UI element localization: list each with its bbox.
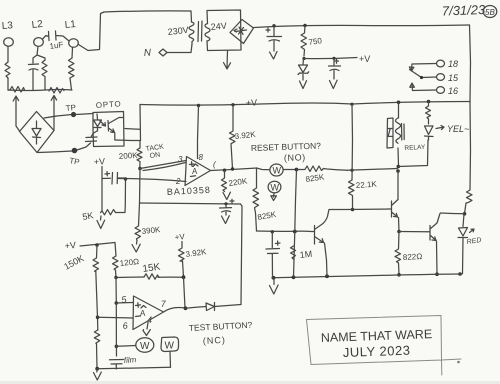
wire Q1 emitter down <box>398 218 401 232</box>
test point TP1 <box>71 112 76 117</box>
test terminal W2 <box>161 337 179 352</box>
LED RED <box>458 214 468 274</box>
U1 caret <box>193 164 198 167</box>
svg-text:6: 6 <box>122 321 128 331</box>
junction rail ledyel <box>427 100 431 104</box>
switch contact 18 <box>437 60 445 67</box>
junction cap C2 <box>332 57 335 60</box>
svg-text:200K: 200K <box>119 151 139 161</box>
wire opto emitter out <box>115 139 140 142</box>
svg-text:7/31/23: 7/31/23 <box>442 2 487 19</box>
svg-text:RELAY: RELAY <box>404 144 426 152</box>
wire U1 output <box>211 168 257 171</box>
wire main rail y25 <box>254 25 470 28</box>
U2 plus <box>136 303 141 308</box>
wire W1 <box>116 345 135 348</box>
plus C1 <box>266 28 270 32</box>
U2 caret <box>141 306 146 309</box>
svg-text:W: W <box>165 341 175 352</box>
junction relay bottom a <box>397 165 401 169</box>
junction 3.92K bottom <box>231 167 234 170</box>
arrow YEL <box>436 126 444 130</box>
svg-text:5B: 5B <box>485 8 495 17</box>
wire Wa node down <box>294 170 297 278</box>
wire pin6 <box>98 316 133 319</box>
wire Q3 emitter down <box>325 243 328 276</box>
resistor 390K <box>135 203 141 241</box>
junction red bottom <box>458 272 462 276</box>
wiper arrow right <box>51 96 56 111</box>
plus C4 <box>276 241 281 245</box>
title box <box>307 316 462 376</box>
junction 750 out <box>302 57 305 60</box>
svg-text:TP: TP <box>65 103 76 113</box>
svg-text:24V: 24V <box>210 21 227 32</box>
wire wiper right to bridge <box>53 110 55 130</box>
resistor filter rail left <box>10 87 25 93</box>
optocoupler box <box>93 112 124 147</box>
wire L3 leg <box>7 47 9 63</box>
wire relay to ledyel bottom <box>398 140 428 167</box>
junction bottom Q3 <box>325 274 329 278</box>
capacitor opto input <box>86 131 98 142</box>
svg-text:18: 18 <box>448 59 458 69</box>
switch contact 16 <box>437 87 445 94</box>
opto LED arrow <box>100 121 106 126</box>
svg-text:(NC): (NC) <box>203 335 226 346</box>
wire L1 leg lower <box>70 78 72 90</box>
wire rail2 <box>140 203 241 204</box>
resistor 150K <box>93 245 99 272</box>
wire right vertical from rail <box>470 25 471 102</box>
wire bottom rail right <box>272 274 462 278</box>
wire diode to corner <box>215 305 242 307</box>
plus C3 <box>230 199 234 203</box>
junction 22.1K top <box>350 169 353 172</box>
svg-text:OPTO: OPTO <box>96 99 122 110</box>
relay box <box>387 118 393 148</box>
terminal L3 <box>4 38 14 46</box>
svg-text:+V: +V <box>93 156 105 167</box>
wire 150K down <box>96 272 98 331</box>
svg-text:+V: +V <box>174 232 185 242</box>
terminal N <box>159 49 167 56</box>
junction 15K tap <box>114 276 117 279</box>
wire output to Wa <box>257 168 270 170</box>
junction relay bottom b <box>396 169 400 173</box>
junction 822 bottom <box>397 273 401 277</box>
junction rail C1 <box>272 24 275 27</box>
terminal L1 <box>69 39 79 48</box>
wire corner 120 <box>115 243 116 257</box>
svg-text:5K: 5K <box>82 210 95 222</box>
wire L3 leg lower <box>8 78 10 90</box>
junction 15K 392 <box>182 275 186 279</box>
svg-text:750: 750 <box>308 36 323 47</box>
svg-text:8: 8 <box>199 153 204 162</box>
wire +V opamp2 <box>80 243 115 247</box>
wire out to diode <box>186 307 207 309</box>
svg-text:+V: +V <box>64 240 76 251</box>
wire rail to transformer <box>190 11 193 22</box>
junction pin6 tap <box>96 316 100 320</box>
wire +V rail mid <box>140 102 470 106</box>
capacitor film <box>110 360 124 370</box>
junction rail 3.92K <box>231 103 234 106</box>
svg-text:W: W <box>271 183 280 193</box>
resistor filter rail right <box>49 88 64 94</box>
svg-text:L1: L1 <box>64 19 76 31</box>
resistor 120 <box>113 256 119 278</box>
wire Q1 collector <box>397 171 399 200</box>
junction 22.1K bottom <box>351 208 355 212</box>
resistor L2 right leg <box>42 60 47 90</box>
arrow below Wb <box>271 194 277 201</box>
ground 220K <box>223 192 230 199</box>
wire rail2 corner down <box>241 204 243 305</box>
wire pin5 node down <box>115 303 117 356</box>
wire pin5 <box>116 302 133 305</box>
ground 5K <box>97 216 105 229</box>
resistor L1 leg <box>69 58 75 78</box>
ground bottom left <box>94 369 102 380</box>
junction Q2 emitter bottom <box>435 272 439 276</box>
svg-text:JULY 2023: JULY 2023 <box>343 343 411 360</box>
capacitor tack <box>102 173 126 185</box>
wire opto collector stub <box>125 128 140 131</box>
wire 392 node down <box>184 277 186 308</box>
wire BR1 bottom to TP2 <box>38 151 72 153</box>
wire 15K line <box>116 276 184 279</box>
resistor 5K <box>101 210 116 215</box>
wire contact 15 <box>422 76 437 79</box>
capacitor C4 <box>266 232 280 278</box>
transformer core <box>198 21 202 42</box>
junction arm <box>420 76 423 79</box>
resistor 822 <box>395 232 401 275</box>
junction bottom left rail <box>95 367 99 371</box>
junction W1 tap <box>115 345 119 349</box>
switch arm <box>410 70 422 78</box>
wire tack right leg <box>116 179 126 213</box>
capacitor C3 <box>220 204 232 215</box>
wiper arrow left <box>13 96 18 110</box>
op-amp U1 triangle <box>185 157 211 186</box>
svg-text:2: 2 <box>175 177 181 186</box>
reset terminal Wb <box>268 181 281 193</box>
wire Q2 emitter down <box>436 241 439 274</box>
wire rail to pin8 <box>198 106 199 159</box>
arrow below BR2 box <box>224 51 231 70</box>
wire W2 down <box>169 352 172 368</box>
ground pin4 <box>143 323 150 336</box>
wire pin3 <box>140 161 186 171</box>
ground C2 <box>330 80 338 88</box>
diode inside BR1 <box>32 121 41 144</box>
wire right vertical upper <box>469 102 472 191</box>
svg-text:822Ω: 822Ω <box>403 252 423 262</box>
wire Wa to 825K <box>283 169 296 171</box>
wire pin2 <box>118 179 186 182</box>
vertical wire opto to rail2 <box>139 141 141 149</box>
plus tack <box>105 172 110 176</box>
resistor 1M <box>291 246 296 259</box>
junction pin2 cap <box>124 177 127 180</box>
transistor Q2 <box>427 214 440 241</box>
junction bottom cap4 <box>272 276 276 280</box>
ground C3 <box>222 216 230 224</box>
wire 120 down to pin5 <box>115 278 117 303</box>
test terminal W1 <box>136 338 154 352</box>
reset terminal Wa <box>270 164 283 176</box>
resistor 22.1K <box>349 180 355 210</box>
U1 plus <box>190 162 195 167</box>
junction Q1 emitter <box>397 230 401 234</box>
diode D2 <box>206 303 215 311</box>
test point TP2 <box>72 148 78 154</box>
svg-text:15: 15 <box>448 73 459 83</box>
wire TP2 to capacitor <box>77 143 91 150</box>
capacitor C2 <box>329 59 341 80</box>
wire q2 collector rail <box>441 212 465 215</box>
svg-text:L2: L2 <box>31 19 44 31</box>
svg-text:ON: ON <box>149 152 160 160</box>
svg-text:W: W <box>273 166 282 176</box>
wire Q1 emitter to Q2 base <box>399 231 427 233</box>
svg-text:YEL~: YEL~ <box>447 124 469 134</box>
resistor 200K tack-on <box>137 148 142 168</box>
svg-text:film: film <box>124 355 137 365</box>
op-amp U2 triangle <box>133 296 164 330</box>
wire +V tackcap down <box>101 167 103 212</box>
relay coil <box>396 118 405 143</box>
ground C1 <box>270 52 278 60</box>
wire wiper left to bridge <box>16 110 20 131</box>
transformer primary <box>189 22 194 44</box>
wire q3 collector line <box>333 208 389 211</box>
bridge rectifier BR2 <box>230 20 254 44</box>
resistor 825K horizontal <box>297 166 348 172</box>
wire L1 to top rail <box>79 12 105 51</box>
wire BR1 to TP1 <box>44 115 72 119</box>
arrow RED <box>470 229 475 233</box>
junction 150K <box>95 243 99 247</box>
zener D1 <box>298 59 309 81</box>
wire rail to 22.1K <box>351 104 354 180</box>
capacitor C1 <box>267 26 282 51</box>
bridge rectifier BR1 <box>20 112 55 153</box>
svg-text:1uF: 1uF <box>49 40 64 51</box>
junction bottom 1M <box>292 275 296 279</box>
capacitor L2 left leg <box>29 64 39 90</box>
junction 220K <box>223 169 226 172</box>
junction rail pin8 <box>197 104 200 107</box>
U2 minus <box>136 315 141 318</box>
wire relay branch top <box>398 102 400 118</box>
resistor 220K <box>222 171 227 192</box>
junction Wa wire <box>295 168 299 172</box>
svg-text:L3: L3 <box>1 20 13 32</box>
diode marks BR2 <box>234 27 247 35</box>
junction pin5 tap <box>115 301 119 305</box>
wire U2 output <box>164 308 186 313</box>
junction rail relay <box>397 101 401 105</box>
ground bottom rail <box>270 278 279 294</box>
relay diode <box>388 129 393 137</box>
wire relay bottom <box>397 148 400 165</box>
LED YEL <box>425 126 434 140</box>
wire node231 <box>257 230 312 233</box>
resistor L3 leg <box>5 62 10 78</box>
svg-text:A: A <box>192 167 198 176</box>
junction cap4 top <box>271 230 274 233</box>
switch contact 15 <box>437 74 445 81</box>
ground 390K <box>132 241 140 253</box>
wire contact 16 <box>410 83 437 91</box>
svg-text:1M: 1M <box>299 249 312 260</box>
secondary box <box>207 10 241 51</box>
transformer secondary <box>205 24 210 41</box>
opto phototransistor <box>108 118 124 140</box>
junction rail 22.1K <box>350 103 353 106</box>
transistor Q1 <box>389 200 399 218</box>
svg-text:A: A <box>140 309 146 318</box>
resistor lower left <box>94 330 100 368</box>
svg-text:+V: +V <box>246 97 258 108</box>
wire +V psu <box>304 58 357 59</box>
svg-text:W: W <box>140 341 150 352</box>
capacitor 1uF <box>43 31 70 41</box>
wire bottom left rail <box>97 367 170 369</box>
junction rail2 cap <box>224 202 227 205</box>
svg-text:+V: +V <box>359 54 370 64</box>
junction red node <box>463 212 467 216</box>
plus C2 <box>335 59 339 63</box>
terminal L2 <box>34 38 44 47</box>
title dot <box>457 361 460 364</box>
transistor Q3 <box>312 210 334 245</box>
resistor 750 <box>301 26 307 57</box>
opto LED <box>94 114 102 131</box>
junction U2 out <box>184 306 188 310</box>
svg-text:16: 16 <box>448 86 458 96</box>
ground D1 <box>300 81 307 89</box>
resistor 3.92K b <box>179 242 185 278</box>
wire L2 split <box>33 47 45 64</box>
U1 minus <box>191 175 196 178</box>
junction pin3 tap <box>138 167 142 171</box>
wire filter bottom rail <box>8 90 72 91</box>
wire L1 leg <box>71 48 74 59</box>
wire vertical to rail2 <box>139 169 142 204</box>
wire 825K to relay node <box>347 169 398 171</box>
resistor 825K vertical <box>253 168 259 231</box>
junction x296 mid <box>293 230 297 234</box>
svg-text:22.1K: 22.1K <box>356 180 378 190</box>
resistor 15K <box>144 274 159 279</box>
resistor 3.92K pullup U1 <box>230 105 236 169</box>
svg-text:(NO): (NO) <box>284 152 306 163</box>
svg-text:3: 3 <box>178 155 183 164</box>
wire primary to N <box>167 44 192 53</box>
circled 5B <box>483 6 497 18</box>
wire top rail <box>104 11 191 12</box>
resistor ledyel <box>426 102 431 125</box>
junction rail 750 <box>303 24 306 27</box>
resistor right vertical <box>465 190 473 214</box>
wire contact 18 <box>409 64 436 72</box>
svg-text:TP: TP <box>69 156 81 167</box>
wire TP1 to opto <box>76 114 93 115</box>
wire opto to +V rail <box>139 105 142 141</box>
